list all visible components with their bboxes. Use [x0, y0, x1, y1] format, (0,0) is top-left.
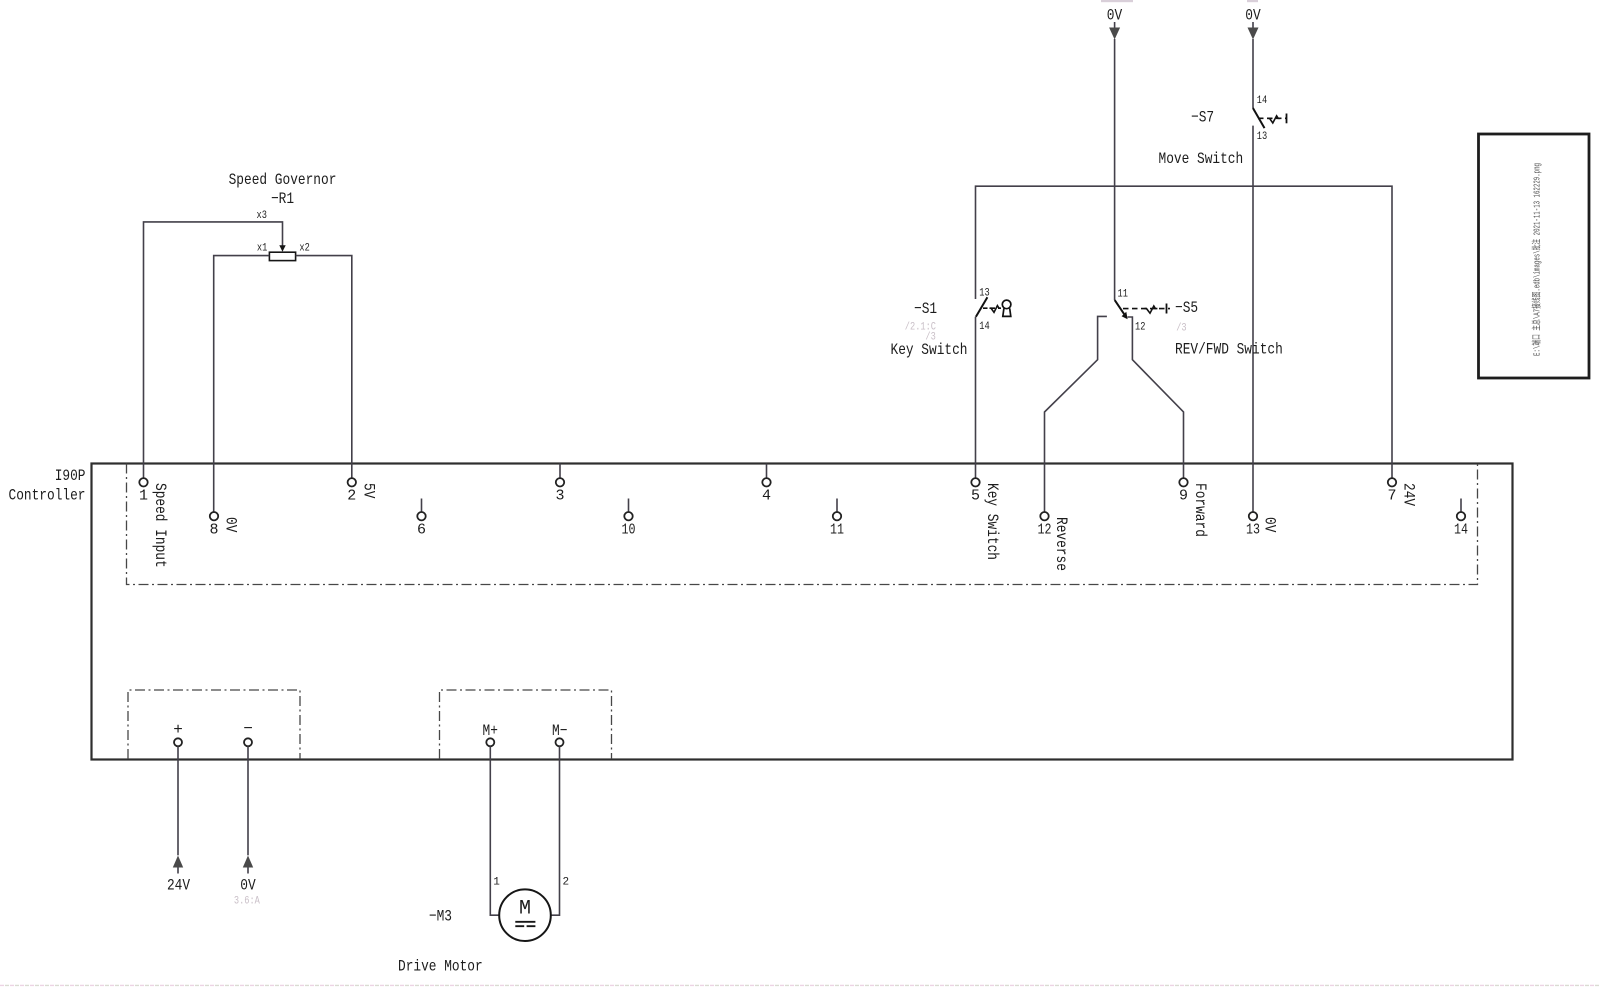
- svg-text:13: 13: [1257, 131, 1267, 143]
- pin 9: [1179, 478, 1187, 486]
- wire S1 pin14 down to pin5: [975, 317, 977, 478]
- svg-text:REV/FWD Switch: REV/FWD Switch: [1175, 341, 1283, 359]
- switch S7 actuator chevron: [1268, 116, 1281, 123]
- svg-text:x1: x1: [257, 243, 268, 255]
- controller inner terminal dashed box: [127, 464, 1478, 585]
- svg-text:I90P: I90P: [55, 467, 86, 485]
- switch S1 key symbol: [1002, 300, 1011, 309]
- svg-text:M−: M−: [552, 722, 567, 740]
- wire pin3 stub: [559, 464, 561, 479]
- switch S7 blade: [1253, 108, 1265, 128]
- battery - terminal: [244, 738, 252, 746]
- svg-text:14: 14: [1257, 95, 1268, 107]
- wire 24V bus from S1 top to pin7: [976, 186, 1393, 478]
- svg-text:/3: /3: [1176, 323, 1186, 335]
- svg-text:12: 12: [1038, 522, 1052, 539]
- svg-text:−R1: −R1: [271, 190, 294, 208]
- wire S7 pin13 down to controller pin13: [1252, 126, 1254, 512]
- title block frame: [1479, 134, 1590, 378]
- pin 7: [1388, 478, 1396, 486]
- svg-text:+: +: [173, 721, 183, 739]
- pin 2: [348, 478, 356, 486]
- wire 0V supply down to S7 pin14: [1252, 39, 1254, 108]
- wire - terminal to 0V arrow: [247, 746, 249, 855]
- pin 5: [971, 478, 979, 486]
- svg-text:10: 10: [622, 522, 636, 539]
- svg-text:−: −: [243, 720, 253, 738]
- svg-text:11: 11: [1118, 289, 1129, 301]
- battery + terminal: [174, 738, 182, 746]
- svg-text:Reverse: Reverse: [1052, 517, 1070, 571]
- svg-text:1: 1: [139, 488, 148, 505]
- motor terminal dashed box: [440, 690, 612, 759]
- svg-text:3: 3: [555, 488, 564, 505]
- wire pin11 stub: [836, 499, 838, 513]
- wire S5 contact12 to controller pin9: [1128, 317, 1184, 478]
- svg-text:14: 14: [979, 321, 990, 333]
- controller U1 box: [92, 464, 1513, 760]
- pin 13: [1249, 512, 1257, 520]
- svg-text:Drive Motor: Drive Motor: [398, 958, 483, 976]
- svg-text:0V: 0V: [240, 877, 256, 895]
- svg-text:5: 5: [971, 488, 980, 505]
- svg-text:Speed Input: Speed Input: [151, 483, 169, 568]
- svg-text:M: M: [519, 898, 531, 921]
- svg-text:0V: 0V: [1245, 7, 1261, 25]
- wire pin4 stub: [766, 464, 768, 479]
- svg-text:24V: 24V: [1400, 483, 1418, 506]
- pin 14: [1457, 512, 1465, 520]
- svg-text:M+: M+: [483, 722, 498, 740]
- svg-text:1: 1: [493, 877, 500, 889]
- motor M- terminal: [556, 738, 564, 746]
- motor M3 circle: [499, 889, 551, 941]
- wire pin14 stub: [1460, 499, 1462, 513]
- svg-text:x3: x3: [257, 210, 267, 222]
- wire pin1 to R1 wiper x3: [144, 222, 283, 478]
- svg-text:3.6:A: 3.6:A: [234, 896, 260, 908]
- svg-text:Key Switch: Key Switch: [891, 341, 968, 359]
- svg-text:12: 12: [1135, 321, 1145, 333]
- pink dashed page border bottom: [0, 984, 1600, 986]
- battery terminal dashed box: [128, 690, 300, 759]
- switch S5 actuator end tick: [1166, 304, 1168, 314]
- svg-text:11: 11: [830, 522, 844, 539]
- svg-text:Key Switch: Key Switch: [983, 483, 1001, 560]
- motor M+ terminal: [486, 738, 494, 746]
- switch S5 actuator chevron: [1145, 306, 1158, 313]
- wire 0V supply down to S5 pin11: [1114, 39, 1116, 300]
- power 0V supply arrow up: [243, 856, 253, 868]
- wire M- to motor pin2: [551, 746, 560, 915]
- pin 10: [624, 512, 632, 520]
- svg-text:x2: x2: [299, 243, 309, 255]
- svg-text:2: 2: [347, 488, 356, 505]
- pin 8: [210, 512, 218, 520]
- power 24V supply arrow up: [173, 856, 183, 868]
- svg-text:0V: 0V: [222, 517, 240, 533]
- pin 4: [762, 478, 770, 486]
- wiper arrowhead into R1: [279, 245, 285, 252]
- svg-text:2: 2: [563, 877, 570, 889]
- svg-text:8: 8: [209, 522, 218, 539]
- svg-text:−S5: −S5: [1175, 299, 1198, 317]
- wire M+ to motor pin1: [490, 746, 499, 915]
- switch S5 blade arrowhead: [1122, 312, 1128, 320]
- switch S1 actuator dashes: [983, 307, 1001, 309]
- motor DC symbol: [515, 921, 535, 923]
- grey clipped text sliver top left: [1101, 0, 1133, 2]
- svg-text:13: 13: [979, 288, 989, 300]
- svg-text:6: 6: [417, 522, 426, 539]
- grey clipped text sliver top right: [1247, 0, 1258, 2]
- svg-text:Controller: Controller: [9, 487, 86, 505]
- switch S7 actuator end tick: [1286, 114, 1288, 124]
- svg-text:14: 14: [1454, 522, 1468, 539]
- svg-text:0V: 0V: [1107, 7, 1123, 25]
- svg-text:−S1: −S1: [914, 300, 937, 318]
- svg-text:13: 13: [1246, 522, 1260, 539]
- svg-text:Forward: Forward: [1191, 483, 1209, 537]
- svg-text:9: 9: [1179, 488, 1188, 505]
- svg-text:Speed Governor: Speed Governor: [229, 171, 337, 189]
- svg-text:4: 4: [762, 488, 771, 505]
- svg-text:24V: 24V: [167, 877, 190, 895]
- switch S1 blade: [976, 297, 988, 317]
- switch S1 actuator chevron: [990, 306, 1001, 313]
- svg-text:Move Switch: Move Switch: [1159, 150, 1244, 168]
- svg-text:−S7: −S7: [1191, 109, 1214, 127]
- switch S7 actuator dashes: [1258, 117, 1287, 119]
- wire pin10 stub: [628, 499, 630, 513]
- svg-text:E:\端口 主总\A7接线图.edb\images\批注 2: E:\端口 主总\A7接线图.edb\images\批注 2021-11-13 …: [1531, 163, 1543, 356]
- switch S5 actuator dashes: [1123, 308, 1170, 310]
- wire S5 left throw to controller pin12: [1045, 316, 1107, 512]
- svg-text:7: 7: [1387, 488, 1396, 505]
- pin 12: [1040, 512, 1048, 520]
- pin 1: [139, 478, 147, 486]
- wire R1 x2 to pin2: [296, 256, 352, 479]
- wire pin6 stub: [421, 499, 423, 513]
- svg-text:−M3: −M3: [429, 908, 452, 926]
- switch S5 blade: [1115, 300, 1125, 314]
- wire + terminal to 24V arrow: [177, 746, 179, 855]
- pin 11: [833, 512, 841, 520]
- resistor R1 potentiometer body: [269, 252, 295, 260]
- pin 3: [556, 478, 564, 486]
- svg-text:5V: 5V: [359, 483, 377, 499]
- wire R1 x1 to pin8: [214, 256, 270, 512]
- pin 6: [417, 512, 425, 520]
- svg-text:0V: 0V: [1261, 517, 1279, 533]
